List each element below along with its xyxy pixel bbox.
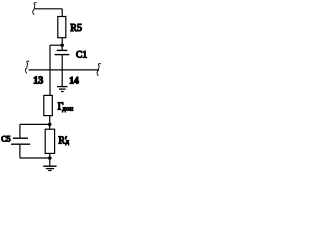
wire C5 return [20, 157, 50, 159]
svg-text:R5: R5 [70, 23, 82, 34]
svg-text:C5: C5 [1, 135, 10, 144]
wire C5 top lead [19, 124, 21, 138]
capacitor C5 top plate [13, 137, 28, 139]
IC edge line (pins 13,14) [29, 69, 99, 71]
wire break squiggle (top feed) [33, 3, 37, 15]
svg-text:доп: доп [62, 106, 73, 113]
wire break squiggle (line right end) [97, 64, 101, 76]
node junction dot [61, 44, 64, 47]
wire to R5 top [61, 9, 63, 17]
capacitor C5 bottom plate [11, 143, 30, 145]
ground (pin 14) [57, 86, 68, 88]
node junction dot (C5 bottom tap) [48, 156, 52, 160]
resistor Rd [45, 129, 54, 153]
wire pin 14 to ground [61, 70, 63, 86]
wire to C5 top [20, 123, 50, 125]
svg-text:14: 14 [69, 76, 79, 86]
wire C5 bottom lead [19, 144, 21, 158]
wire Gdop to Rd [49, 116, 51, 130]
svg-text:C1: C1 [76, 50, 87, 60]
node junction dot (C5 top tap) [48, 123, 52, 127]
wire C1 to pin 14 [61, 55, 63, 70]
wire Rd bottom [49, 153, 51, 165]
resistor R5 [58, 17, 66, 38]
wire pin 13 vertical [49, 45, 51, 95]
capacitor C1 top plate [57, 49, 68, 51]
wire top feed [35, 8, 62, 10]
ground (bottom) [43, 165, 56, 167]
wire R5 bottom to node [61, 38, 63, 51]
wire branch to pin 13 net [50, 44, 62, 46]
wire break squiggle (line left end) [25, 61, 29, 73]
svg-text:13: 13 [33, 75, 43, 86]
capacitor C1 bottom plate [55, 54, 70, 56]
resistor Gdop [44, 95, 53, 115]
